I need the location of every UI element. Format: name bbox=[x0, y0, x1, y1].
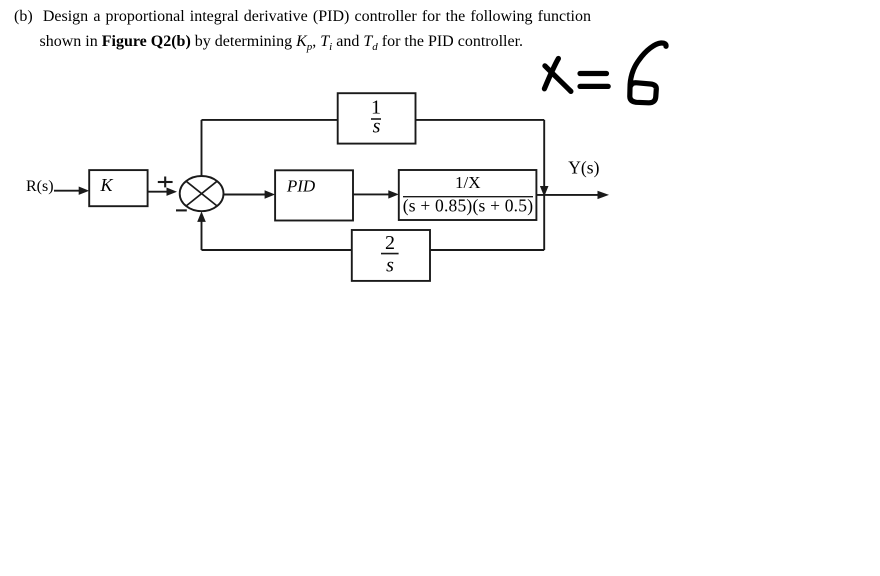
wire R(s) to K bbox=[54, 190, 80, 192]
block plant transfer function bbox=[399, 170, 537, 220]
arrowhead down on right vertical bbox=[540, 186, 549, 197]
handwritten annotation equals bbox=[580, 71, 607, 76]
svg-text:s: s bbox=[373, 116, 381, 138]
fraction bar 2/s bbox=[381, 253, 399, 255]
svg-text:2: 2 bbox=[385, 232, 395, 254]
wire top right horizontal bbox=[416, 119, 545, 121]
svg-text:Y(s): Y(s) bbox=[568, 158, 599, 178]
wire K to summing junction bbox=[148, 191, 168, 193]
plus sign bbox=[158, 177, 173, 188]
fraction bar 1/s bbox=[371, 118, 381, 120]
wire output line to Y(s) bbox=[536, 194, 599, 196]
wire feedback up vertical bbox=[201, 221, 203, 250]
block PID bbox=[275, 170, 353, 220]
svg-text:s: s bbox=[386, 255, 394, 277]
handwritten annotation 6 bbox=[630, 43, 666, 103]
svg-text:K: K bbox=[100, 175, 114, 195]
arrowhead into plant block bbox=[388, 190, 399, 198]
arrowhead up into summing junction bbox=[197, 211, 206, 222]
block K bbox=[89, 170, 147, 206]
summing junction X diagonal 1 bbox=[186, 181, 217, 206]
fraction bar plant bbox=[403, 196, 533, 198]
svg-text:PID: PID bbox=[286, 176, 316, 195]
wire junction top vertical bbox=[201, 120, 203, 177]
wire right vertical bbox=[543, 120, 545, 250]
arrowhead into K bbox=[79, 187, 90, 195]
wire bottom left horizontal bbox=[202, 249, 353, 251]
handwritten annotation X bbox=[544, 43, 666, 103]
arrowhead into PID bbox=[265, 190, 276, 198]
block 2/s bbox=[352, 230, 430, 281]
block 1/s bbox=[338, 93, 416, 143]
wire top left horizontal bbox=[202, 119, 338, 121]
svg-text:(s + 0.85)(s + 0.5): (s + 0.85)(s + 0.5) bbox=[403, 195, 533, 215]
summing junction circle bbox=[180, 176, 224, 211]
wire PID to plant block bbox=[353, 193, 390, 195]
wire bottom right horizontal bbox=[430, 249, 544, 251]
svg-text:R(s): R(s) bbox=[26, 178, 54, 195]
arrowhead output Y(s) bbox=[598, 191, 610, 199]
wire summing junction to PID bbox=[224, 194, 267, 196]
svg-text:1/X: 1/X bbox=[455, 173, 481, 192]
arrowhead into summing junction bbox=[167, 188, 178, 196]
minus sign bbox=[176, 209, 187, 211]
summing junction X diagonal 2 bbox=[186, 181, 217, 206]
question text paragraph bbox=[14, 4, 591, 55]
